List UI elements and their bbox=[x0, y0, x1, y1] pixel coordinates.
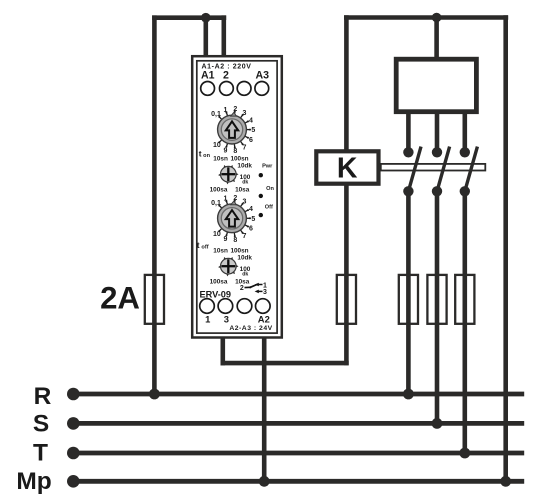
svg-text:A2: A2 bbox=[258, 313, 270, 324]
svg-text:10dk: 10dk bbox=[237, 162, 252, 169]
svg-text:10: 10 bbox=[213, 142, 221, 149]
svg-text:t: t bbox=[199, 149, 202, 159]
svg-text:A2-A3 : 24V: A2-A3 : 24V bbox=[229, 325, 272, 332]
svg-text:10sa: 10sa bbox=[235, 186, 250, 193]
svg-text:10sn: 10sn bbox=[213, 155, 228, 162]
svg-text:1: 1 bbox=[223, 107, 227, 114]
svg-text:5: 5 bbox=[251, 127, 255, 134]
svg-text:3: 3 bbox=[243, 199, 247, 206]
svg-text:4: 4 bbox=[249, 206, 253, 213]
svg-text:0,1: 0,1 bbox=[211, 200, 221, 207]
svg-text:8: 8 bbox=[233, 148, 237, 155]
svg-text:2A: 2A bbox=[100, 281, 140, 316]
svg-text:10dk: 10dk bbox=[237, 254, 252, 261]
svg-text:1: 1 bbox=[205, 313, 210, 324]
svg-text:on: on bbox=[203, 153, 210, 159]
svg-text:3: 3 bbox=[243, 110, 247, 117]
svg-text:6: 6 bbox=[249, 137, 253, 144]
svg-text:2: 2 bbox=[240, 285, 244, 292]
svg-text:100sn: 100sn bbox=[230, 155, 248, 162]
svg-text:7: 7 bbox=[243, 144, 247, 151]
svg-text:9: 9 bbox=[223, 147, 227, 154]
svg-text:On: On bbox=[266, 186, 274, 192]
svg-text:10: 10 bbox=[213, 231, 221, 238]
svg-text:T: T bbox=[33, 439, 48, 466]
svg-text:3: 3 bbox=[224, 313, 229, 324]
svg-text:1: 1 bbox=[223, 196, 227, 203]
svg-text:10sn: 10sn bbox=[213, 247, 228, 254]
svg-text:6: 6 bbox=[249, 226, 253, 233]
svg-text:R: R bbox=[34, 383, 52, 410]
svg-text:4: 4 bbox=[249, 117, 253, 124]
svg-text:dk: dk bbox=[242, 179, 248, 185]
svg-text:S: S bbox=[33, 410, 49, 437]
svg-text:A3: A3 bbox=[256, 70, 270, 82]
svg-text:8: 8 bbox=[233, 237, 237, 244]
svg-text:0,1: 0,1 bbox=[211, 111, 221, 118]
svg-text:off: off bbox=[201, 245, 208, 251]
svg-text:Mp: Mp bbox=[16, 468, 51, 495]
svg-text:t: t bbox=[197, 240, 200, 250]
svg-text:A1: A1 bbox=[201, 70, 215, 82]
svg-text:7: 7 bbox=[243, 233, 247, 240]
svg-text:Off: Off bbox=[265, 204, 273, 210]
svg-text:100sa: 100sa bbox=[210, 278, 228, 285]
svg-text:5: 5 bbox=[251, 216, 255, 223]
svg-text:9: 9 bbox=[223, 236, 227, 243]
svg-text:100sn: 100sn bbox=[230, 247, 248, 254]
svg-text:Pwr: Pwr bbox=[262, 164, 273, 170]
svg-text:3: 3 bbox=[263, 289, 267, 296]
svg-text:dk: dk bbox=[242, 271, 248, 277]
svg-text:100sa: 100sa bbox=[210, 186, 228, 193]
svg-text:K: K bbox=[337, 153, 358, 185]
svg-text:2: 2 bbox=[223, 70, 229, 82]
